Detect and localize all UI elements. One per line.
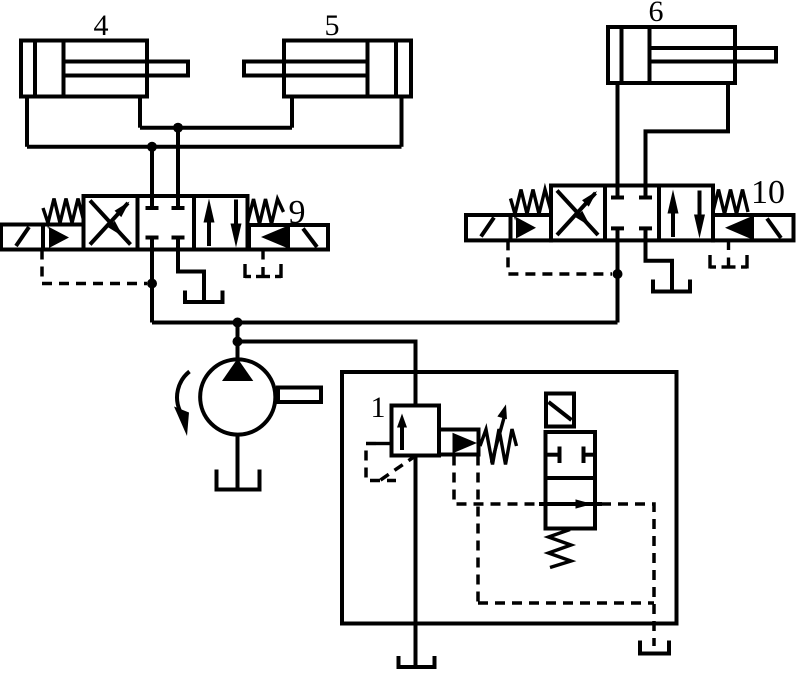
pump tank symbol: [217, 470, 260, 490]
wire cyl4 left port: [25, 97, 29, 147]
wire cyl6 right port: [646, 83, 729, 198]
unloading valve pilot head: [546, 394, 574, 427]
pilot dashed from relief to unloading valve: [454, 456, 546, 505]
unloading valve spring: [549, 530, 572, 568]
valve 9 tank line: [178, 250, 204, 301]
pilot dashed right of unloading valve: [601, 504, 654, 646]
wire cyl4 right port: [138, 97, 142, 128]
svg-text:4: 4: [94, 9, 109, 42]
relief valve spring: [480, 429, 517, 465]
wire B line (cyl4 left to cyl5 right): [27, 145, 402, 149]
wire valve9 port B up: [176, 128, 180, 208]
unloading valve flow arrow: [539, 499, 602, 508]
valve 10 left solenoid: [466, 215, 551, 240]
relief valve adjust arrow: [492, 403, 511, 463]
node pilot junction valve 10: [613, 269, 623, 279]
unloading valve blocked ports: [546, 447, 596, 464]
wire cyl5 right port: [400, 97, 404, 147]
wire A line (cyl4 right to cyl5 left): [140, 126, 292, 130]
svg-text:6: 6: [649, 0, 664, 28]
cylinder 4: [21, 41, 188, 97]
valve 9 center blocked ports: [146, 208, 185, 250]
valve 10 tank line: [646, 240, 673, 291]
pump tank line: [236, 437, 240, 490]
valve 10 right solenoid: [713, 215, 794, 240]
relief valve remote pilot dashed: [366, 444, 415, 481]
valve 10 crossed arrows: [557, 188, 600, 235]
svg-text:5: 5: [325, 9, 340, 42]
main tank symbol: [399, 656, 435, 667]
valve 9 pressure line down: [150, 250, 154, 323]
node pilot junction valve 9: [147, 279, 157, 289]
wire cyl5 left port: [290, 97, 294, 128]
wire cyl6 left port: [616, 83, 620, 198]
node pump tee upper: [233, 318, 243, 328]
svg-text:10: 10: [751, 174, 785, 211]
small tank symbol bottom right: [640, 641, 669, 654]
enclosure box: [342, 372, 677, 624]
valve 9 body: [84, 196, 248, 250]
wire branch to relief: [238, 342, 416, 406]
valve 10 left spring: [511, 190, 552, 215]
wire valve9 port A up: [150, 147, 154, 208]
svg-text:9: 9: [289, 194, 306, 231]
valve 10 center blocked ports: [611, 198, 652, 241]
cylinder 6: [608, 27, 776, 83]
valve 10 body: [551, 186, 713, 241]
valve 9 solenoid drain dashed tank: [245, 250, 281, 279]
node on B line: [147, 142, 157, 152]
valve 10 pilot dashed line: [508, 240, 612, 274]
valve 9 parallel arrows: [204, 199, 242, 248]
valve 9 crossed arrows: [90, 198, 133, 244]
valve 9 left spring: [43, 199, 84, 224]
main line through box: [414, 456, 418, 667]
pilot dashed rectangle left side: [476, 456, 480, 604]
unloading valve body: [546, 432, 596, 529]
valve 10 solenoid drain dashed tank: [710, 240, 747, 268]
wire pump riser: [236, 323, 240, 360]
relief valve U1 body: [392, 406, 440, 456]
valve 9 left solenoid: [1, 225, 84, 250]
valve 9 pilot dashed line: [42, 250, 147, 284]
cylinder 5: [244, 41, 411, 97]
valve 9 right spring: [248, 199, 284, 224]
valve 10 tank symbol: [653, 280, 690, 292]
valve 10 pressure line down: [616, 240, 620, 322]
node pump branch: [233, 337, 243, 347]
pilot dashed rectangle bottom: [478, 601, 654, 605]
valve 9 tank symbol: [185, 291, 223, 303]
valve 9 right solenoid: [249, 225, 328, 250]
pump P: [200, 359, 321, 435]
valve 10 parallel arrows: [668, 190, 706, 239]
wire main pressure bus: [152, 321, 618, 325]
pump rotation arrow: [174, 372, 190, 437]
node on A line: [173, 123, 183, 133]
relief valve pilot cone box: [439, 430, 479, 455]
valve 10 right spring: [713, 190, 748, 215]
svg-text:1: 1: [371, 391, 386, 424]
